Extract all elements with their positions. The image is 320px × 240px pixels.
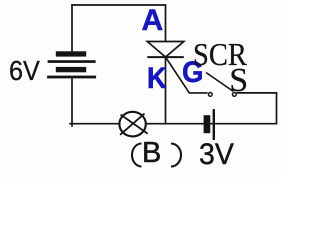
wire left vertical lower	[71, 78, 73, 127]
battery B1 6V plate thin	[48, 60, 96, 63]
label A anode	[142, 6, 164, 36]
label 6V	[9, 57, 40, 85]
thyristor SCR triangle (anode)	[147, 42, 184, 58]
battery B1 6V plate thick lower	[56, 67, 86, 72]
label S switch	[229, 64, 248, 98]
caption 3V	[199, 140, 234, 170]
switch S contact left	[208, 93, 212, 97]
wire cathode vertical	[165, 57, 167, 124]
label G gate	[182, 58, 203, 88]
lamp L1	[119, 112, 147, 137]
battery B2 3V plate thick (left)	[204, 115, 211, 133]
wire left vertical upper	[71, 4, 73, 51]
caption right parenthesis	[171, 144, 181, 167]
wire top horizontal	[71, 4, 166, 6]
battery B1 6V plate thin bottom	[47, 76, 96, 79]
thyristor SCR cathode bar	[147, 56, 184, 58]
label K cathode	[147, 64, 167, 94]
wire bottom horizontal	[69, 123, 276, 125]
wire gate polyline	[166, 57, 208, 93]
switch S contact right	[232, 93, 236, 97]
battery B2 3V plate thin (right)	[213, 109, 215, 140]
caption B	[142, 139, 161, 168]
label SCR	[193, 38, 247, 70]
switch S lever	[206, 73, 233, 92]
caption left parenthesis	[132, 144, 142, 167]
wire anode vertical	[165, 5, 167, 42]
battery B1 6V plate thick top	[56, 51, 86, 56]
wire switch to right edge	[237, 92, 278, 94]
wire right vertical	[276, 93, 278, 125]
